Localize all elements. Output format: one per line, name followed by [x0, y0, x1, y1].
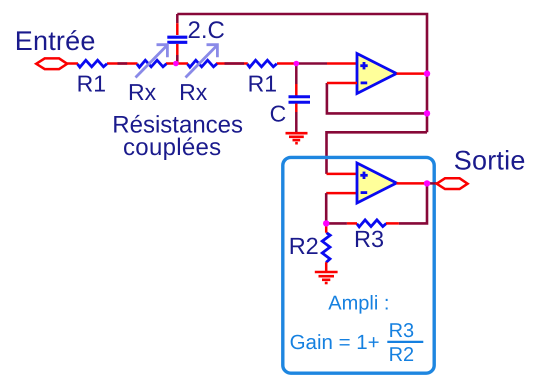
svg-text:Rx: Rx — [179, 79, 208, 105]
svg-text:Gain = 1+: Gain = 1+ — [290, 331, 380, 354]
svg-text:R1: R1 — [248, 71, 277, 97]
svg-text:R1: R1 — [77, 71, 106, 97]
svg-text:Ampli :: Ampli : — [328, 293, 389, 315]
svg-text:Sortie: Sortie — [454, 145, 526, 175]
svg-text:C: C — [270, 100, 287, 126]
svg-text:R2: R2 — [289, 233, 319, 259]
svg-text:R3: R3 — [389, 320, 415, 342]
svg-text:Entrée: Entrée — [15, 26, 96, 56]
svg-text:R3: R3 — [354, 226, 384, 252]
svg-text:2.C: 2.C — [188, 17, 225, 44]
svg-text:R2: R2 — [389, 344, 415, 366]
svg-text:Rx: Rx — [128, 79, 157, 105]
svg-text:couplées: couplées — [123, 134, 221, 161]
